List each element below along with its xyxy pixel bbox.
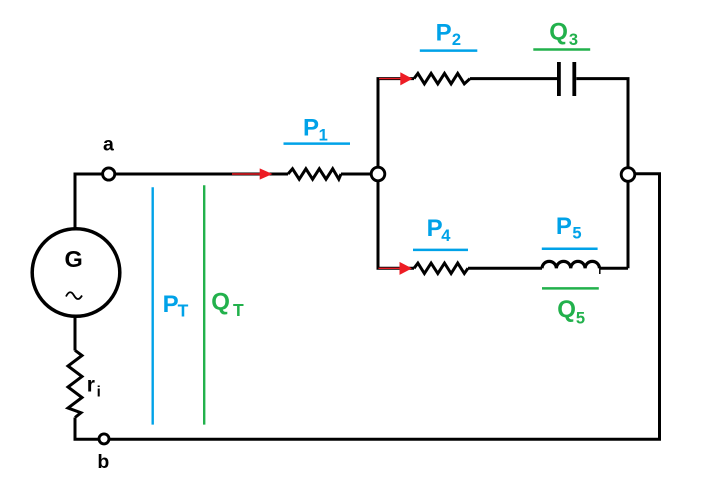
svg-text:Q: Q [557,296,576,323]
label P1 value [284,115,351,145]
label G [65,246,83,272]
generator sine symbol ~ [66,292,82,299]
net PT marker line (cyan) [151,187,153,424]
svg-text:4: 4 [441,227,451,245]
svg-text:b: b [97,451,109,473]
svg-text:2: 2 [452,31,461,49]
resistor P4 [414,263,468,273]
wire bottom branch start stub [377,267,415,270]
wire P4 to inductor P5 [468,267,542,270]
wire left branch vertical with top corner [378,79,414,269]
svg-text:P: P [163,291,179,318]
label Q3 value [533,19,590,50]
terminal b (open circle) [99,434,109,444]
svg-text:P: P [303,115,319,142]
wire P2 to capacitor Q3 [470,77,557,80]
svg-text:5: 5 [576,310,585,328]
label QT [211,288,244,320]
arrow current main (red) [232,168,273,179]
svg-text:5: 5 [572,224,581,242]
svg-text:P: P [436,19,452,46]
svg-text:P: P [556,213,572,240]
resistor ri (internal resistance) [68,350,82,417]
label ri [87,374,101,401]
arrow current bottom branch (red) [379,262,413,275]
label P5 value [542,213,598,249]
wire right node to far right vertical, down and along bottom to resistor ri [75,174,660,440]
svg-text:i: i [97,384,101,401]
svg-text:T: T [233,300,244,320]
label PT [163,291,189,321]
wire P1 to left node [341,173,378,176]
inductor P5 [542,261,600,274]
wire inductor to right branch vertical [600,267,629,270]
svg-text:Q: Q [211,288,230,315]
node left junction (open circle) [371,167,385,181]
svg-text:3: 3 [569,31,578,49]
wire capacitor to right branch vertical with corner [576,79,628,269]
label Q5 value [542,288,599,327]
label b [97,451,109,473]
terminal a (open circle) [103,168,115,180]
wire top horizontal from corner through terminal a to resistor P1 [74,173,289,176]
resistor P1 [288,169,341,179]
arrow current top branch (red) [379,72,413,85]
svg-text:P: P [427,215,443,242]
resistor P2 [414,73,470,83]
wire left vertical from terminal a corner down to generator top [74,174,77,228]
svg-text:G: G [65,246,83,272]
net QT marker line (green) [203,185,205,424]
svg-text:a: a [103,133,114,155]
wire generator bottom to resistor ri [74,317,77,351]
svg-text:T: T [178,301,189,321]
node right junction (open circle) [621,168,635,182]
svg-text:Q: Q [549,19,568,46]
label a [103,133,114,155]
capacitor Q3 [559,62,574,96]
svg-text:r: r [87,374,95,397]
label P2 value [420,19,478,50]
svg-text:1: 1 [319,126,328,144]
generator G circle [32,229,120,317]
label P4 value [413,215,468,250]
